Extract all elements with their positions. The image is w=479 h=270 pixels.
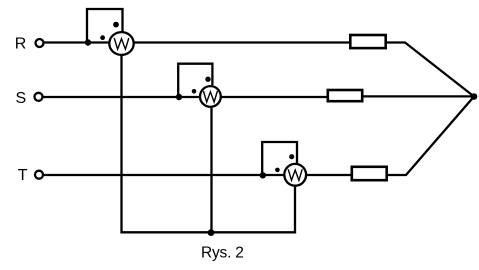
svg-text:R: R xyxy=(15,35,27,52)
svg-text:Rys. 2: Rys. 2 xyxy=(201,245,244,262)
svg-text:T: T xyxy=(18,167,28,184)
svg-text:S: S xyxy=(16,90,27,107)
